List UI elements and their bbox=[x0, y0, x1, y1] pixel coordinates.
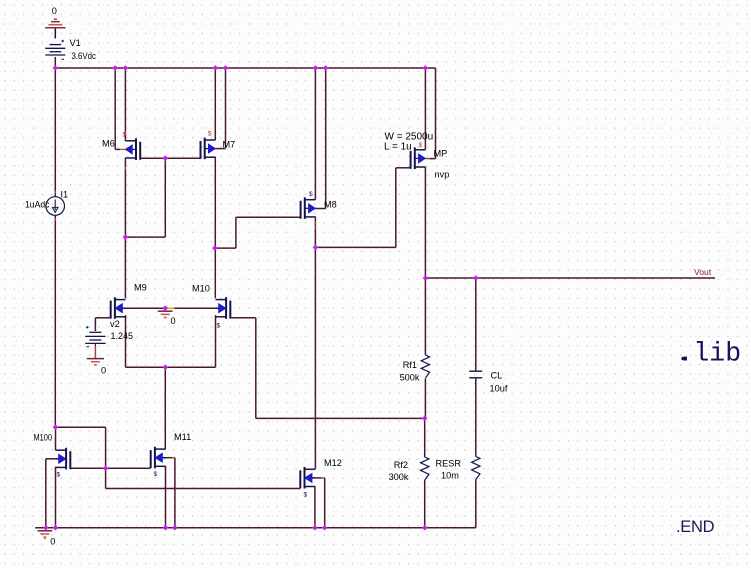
svg-text:$: $ bbox=[57, 472, 61, 479]
svg-text:$: $ bbox=[123, 132, 127, 139]
svg-text:0: 0 bbox=[50, 537, 55, 547]
svg-text:V1: V1 bbox=[70, 38, 81, 48]
svg-text:0: 0 bbox=[101, 366, 106, 376]
svg-text:Vout: Vout bbox=[694, 267, 712, 277]
svg-text:M11: M11 bbox=[174, 432, 191, 442]
svg-text:M6: M6 bbox=[102, 139, 115, 149]
svg-text:MP: MP bbox=[434, 149, 448, 159]
svg-text:nvp: nvp bbox=[435, 170, 450, 180]
svg-text:v2: v2 bbox=[110, 319, 120, 329]
svg-text:3.6Vdc: 3.6Vdc bbox=[72, 51, 97, 61]
svg-text:RESR: RESR bbox=[436, 459, 462, 469]
svg-text:Rf1: Rf1 bbox=[403, 360, 417, 370]
svg-text:M9: M9 bbox=[134, 283, 147, 293]
svg-text:$: $ bbox=[304, 492, 308, 499]
svg-text:I1: I1 bbox=[61, 190, 69, 200]
svg-text:10m: 10m bbox=[441, 471, 459, 481]
svg-text:M8: M8 bbox=[324, 200, 337, 210]
svg-text:1.245: 1.245 bbox=[111, 331, 134, 341]
svg-text:0: 0 bbox=[52, 6, 57, 16]
svg-text:M7: M7 bbox=[223, 140, 236, 150]
svg-text:$: $ bbox=[208, 131, 212, 138]
svg-text:$: $ bbox=[309, 191, 313, 198]
svg-text:$: $ bbox=[217, 323, 221, 330]
svg-text:10uf: 10uf bbox=[490, 384, 508, 394]
svg-text:500k: 500k bbox=[400, 373, 420, 383]
svg-text:.lib: .lib bbox=[678, 339, 742, 369]
svg-text:L = 1u: L = 1u bbox=[384, 142, 412, 153]
svg-text:M12: M12 bbox=[324, 458, 342, 468]
svg-text:CL: CL bbox=[491, 371, 503, 381]
svg-text:$: $ bbox=[154, 471, 158, 478]
svg-text:$: $ bbox=[419, 142, 423, 149]
svg-text:M100: M100 bbox=[34, 433, 53, 443]
svg-text:Rf2: Rf2 bbox=[394, 460, 408, 470]
svg-text:0: 0 bbox=[171, 316, 176, 326]
svg-text:1uAdc: 1uAdc bbox=[25, 200, 50, 210]
svg-text:.END: .END bbox=[676, 518, 715, 536]
svg-text:M10: M10 bbox=[192, 284, 210, 294]
svg-text:300k: 300k bbox=[389, 472, 409, 482]
